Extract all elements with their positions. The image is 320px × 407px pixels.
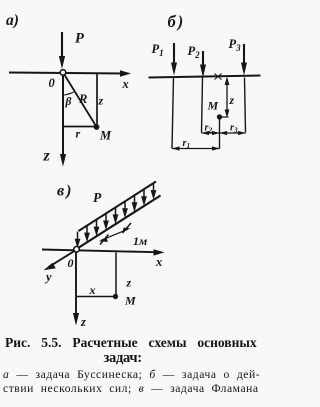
svg-text:z: z (126, 276, 132, 290)
label v) (57, 183, 73, 200)
svg-text:в): в) (57, 183, 73, 200)
horizontal r line to M (diagram a) (63, 127, 94, 141)
depth dimension line z (diagram v) (116, 253, 132, 297)
svg-text:P: P (93, 190, 102, 205)
svg-text:z: z (80, 315, 86, 329)
svg-text:r: r (76, 127, 81, 141)
y-axis (diagram v) (44, 250, 77, 284)
svg-text:0: 0 (49, 76, 56, 90)
svg-text:z: z (98, 94, 104, 108)
svg-text:r1: r1 (183, 138, 191, 150)
svg-text:M: M (207, 99, 219, 113)
loaded line strip (diagram v) (77, 196, 161, 250)
label a) (6, 12, 19, 29)
angle beta arc and label (diagram a) (63, 92, 75, 109)
origin node O (diagram v) (68, 247, 80, 271)
dimension r2 (diagram b) (202, 123, 220, 136)
svg-text:M: M (124, 294, 136, 308)
svg-text:r3: r3 (230, 123, 238, 135)
svg-text:P3: P3 (229, 37, 242, 53)
z-axis (diagram a) (43, 75, 67, 167)
svg-text:R: R (78, 92, 87, 106)
dimension z label (diagram a) (98, 94, 104, 108)
svg-text:z: z (229, 95, 235, 107)
svg-text:P1: P1 (152, 42, 164, 58)
x-axis (diagram a) (9, 70, 131, 91)
surface tick above M (diagram b) (215, 74, 222, 80)
origin node O (diagram a) (49, 70, 66, 90)
svg-text:x: x (89, 283, 96, 297)
svg-text:z: z (43, 148, 51, 165)
radius line R from O to M (diagram a) (64, 74, 96, 126)
x-axis (diagram v) (42, 249, 165, 269)
z-axis (diagram v) (73, 252, 86, 329)
distributed load arrows P (diagram v) (75, 183, 157, 248)
point M (diagram b) (207, 99, 223, 120)
force P (diagram a) (59, 31, 84, 70)
half-space surface line (diagram b) (149, 76, 261, 78)
label b) (168, 12, 186, 31)
point M (diagram v) (113, 294, 136, 308)
svg-text:x: x (155, 255, 162, 269)
tick from M to z-line (diagram b) (220, 116, 229, 118)
svg-text:M: M (99, 129, 112, 143)
point M (diagram a) (94, 124, 112, 142)
vertical reference below M (diagram b) (219, 118, 221, 149)
force P2 (diagram b) (188, 44, 207, 78)
figure caption line 2 (104, 350, 142, 367)
dimension 1m along strip (diagram v) (99, 223, 148, 248)
vertical projection line through M (diagram a) (96, 74, 98, 127)
svg-text:x: x (122, 77, 129, 91)
horizontal dimension x to M (diagram v) (77, 283, 114, 297)
svg-text:1м: 1м (133, 234, 147, 248)
extension line below P2 (diagram b) (202, 78, 203, 133)
svg-text:P: P (75, 31, 84, 47)
svg-text:P2: P2 (188, 44, 201, 60)
depth dimension z (diagram b) (225, 77, 235, 119)
svg-text:б): б) (168, 12, 186, 31)
svg-text:а): а) (6, 12, 19, 29)
svg-text:y: y (44, 270, 52, 284)
extension line below P3 (diagram b) (245, 78, 246, 133)
force P1 (diagram b) (152, 42, 178, 76)
dimension r3 (diagram b) (220, 123, 246, 136)
figure caption line 1 (5, 335, 257, 351)
svg-text:0: 0 (68, 256, 74, 270)
svg-text:r2: r2 (205, 123, 213, 135)
caption note line 1 (3, 368, 260, 381)
force P3 (diagram b) (229, 37, 248, 76)
distributed load top line (diagram v) (79, 182, 157, 232)
dimension r1 (diagram b) (172, 138, 220, 151)
caption note line 2 (3, 382, 259, 395)
extension line below P1 (diagram b) (172, 78, 174, 149)
svg-text:β: β (65, 96, 72, 108)
